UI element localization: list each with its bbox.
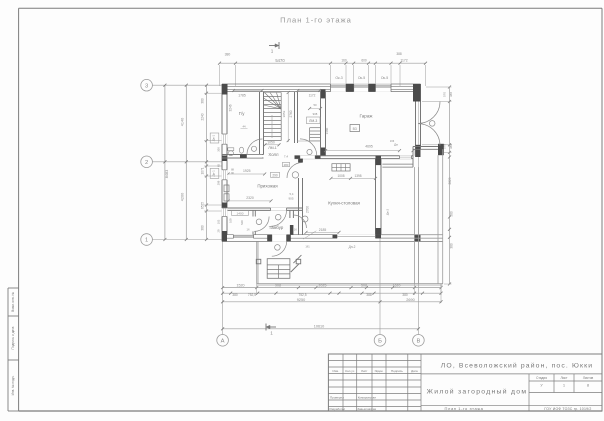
svg-text:Кол.уч: Кол.уч — [345, 369, 354, 373]
svg-text:300: 300 — [216, 147, 220, 152]
svg-text:4140: 4140 — [180, 118, 184, 126]
svg-text:Лист: Лист — [361, 369, 368, 373]
svg-text:Дата: Дата — [411, 369, 418, 373]
svg-text:2240: 2240 — [200, 113, 204, 120]
svg-text:4200: 4200 — [180, 193, 184, 201]
svg-text:10610: 10610 — [314, 324, 325, 328]
svg-text:7,4: 7,4 — [284, 155, 289, 159]
svg-text:1б6: 1б6 — [390, 139, 395, 143]
svg-text:1б1: 1б1 — [305, 245, 310, 249]
svg-text:ЛМ-3: ЛМ-3 — [309, 119, 317, 123]
svg-text:1172: 1172 — [400, 59, 407, 63]
svg-text:Взам. инв. №: Взам. инв. № — [11, 292, 15, 312]
svg-text:Холл: Холл — [268, 152, 279, 157]
svg-text:29: 29 — [216, 229, 220, 232]
svg-text:299: 299 — [216, 180, 220, 185]
svg-text:Дв-1: Дв-1 — [212, 135, 216, 142]
svg-text:Гараж: Гараж — [360, 114, 374, 119]
svg-text:2320: 2320 — [246, 196, 254, 200]
svg-text:65: 65 — [216, 164, 220, 167]
svg-text:528: 528 — [240, 220, 244, 225]
svg-text:388: 388 — [449, 92, 453, 97]
svg-text:1050: 1050 — [267, 140, 275, 144]
svg-text:ГОУ ИОФ ТОЗС гр. 1019/2: ГОУ ИОФ ТОЗС гр. 1019/2 — [544, 407, 591, 411]
svg-text:1785: 1785 — [238, 94, 246, 98]
svg-text:8: 8 — [587, 384, 589, 388]
svg-text:280: 280 — [284, 163, 289, 167]
svg-text:Проверил: Проверил — [330, 395, 344, 399]
svg-text:1008: 1008 — [337, 174, 344, 178]
svg-text:Кухня-столовая: Кухня-столовая — [328, 200, 360, 205]
svg-text:2185: 2185 — [319, 228, 327, 232]
svg-text:9250: 9250 — [297, 298, 305, 302]
svg-text:2: 2 — [145, 160, 148, 166]
svg-text:Изм.: Изм. — [332, 369, 339, 373]
svg-text:ЛО, Всеволожский район, пос. Ю: ЛО, Всеволожский район, пос. Юкки — [441, 362, 593, 370]
svg-text:Ок-5: Ок-5 — [381, 76, 388, 80]
svg-text:5,4: 5,4 — [290, 192, 294, 196]
svg-text:1400: 1400 — [237, 211, 244, 215]
svg-text:1925: 1925 — [243, 169, 251, 173]
svg-text:380: 380 — [402, 293, 408, 297]
svg-text:Листов: Листов — [583, 376, 594, 380]
svg-text:Дв-1: Дв-1 — [212, 170, 216, 177]
svg-text:1520: 1520 — [237, 283, 245, 287]
svg-text:388: 388 — [366, 293, 372, 297]
svg-text:380: 380 — [232, 293, 238, 297]
svg-text:388: 388 — [396, 52, 402, 56]
svg-text:Прихожая: Прихожая — [257, 184, 278, 189]
svg-text:Стадия: Стадия — [536, 376, 547, 380]
svg-text:1071: 1071 — [200, 167, 204, 174]
svg-text:План 1-го этажа: План 1-го этажа — [280, 15, 352, 24]
svg-text:908: 908 — [313, 112, 318, 116]
svg-text:Дв-2: Дв-2 — [386, 209, 390, 216]
svg-text:160: 160 — [341, 59, 347, 63]
svg-text:Подпись и дата: Подпись и дата — [11, 326, 15, 349]
svg-text:905: 905 — [288, 197, 293, 201]
svg-text:752,5: 752,5 — [248, 293, 256, 297]
svg-text:5470: 5470 — [275, 58, 285, 63]
svg-text:Жилой загородный дом: Жилой загородный дом — [427, 387, 528, 395]
svg-text:Разработал: Разработал — [330, 407, 346, 411]
svg-text:4695: 4695 — [365, 145, 373, 149]
svg-text:380: 380 — [225, 53, 231, 57]
svg-text:380: 380 — [200, 225, 204, 231]
svg-text:Дн-2: Дн-2 — [349, 245, 356, 249]
svg-text:752,5: 752,5 — [298, 293, 306, 297]
svg-text:44: 44 — [242, 125, 246, 129]
svg-text:2760: 2760 — [289, 110, 293, 117]
svg-text:2690: 2690 — [406, 298, 414, 302]
svg-text:380: 380 — [200, 98, 204, 104]
svg-text:388: 388 — [449, 144, 453, 149]
svg-text:Завьяловская: Завьяловская — [357, 407, 376, 411]
svg-text:Инв. № подл.: Инв. № подл. — [11, 375, 15, 395]
svg-text:600: 600 — [361, 59, 367, 63]
svg-text:1680: 1680 — [325, 127, 329, 134]
svg-text:570: 570 — [443, 92, 447, 97]
svg-text:1172: 1172 — [309, 93, 316, 97]
svg-text:2700: 2700 — [306, 206, 310, 213]
svg-text:Ок-3: Ок-3 — [335, 76, 342, 80]
svg-text:290: 290 — [272, 173, 278, 177]
svg-text:Г/у: Г/у — [239, 111, 246, 116]
svg-text:6525: 6525 — [200, 202, 204, 209]
svg-text:Комаровская: Комаровская — [358, 395, 377, 399]
svg-text:А: А — [221, 338, 225, 344]
svg-text:8483: 8483 — [165, 170, 169, 178]
svg-text:Б: Б — [378, 338, 382, 344]
svg-text:Дв: Дв — [394, 143, 398, 147]
svg-text:1: 1 — [145, 238, 148, 244]
svg-text:380: 380 — [449, 243, 453, 249]
svg-text:ЛМ-1: ЛМ-1 — [268, 146, 277, 150]
svg-text:Подпись: Подпись — [391, 369, 403, 373]
svg-text:109: 109 — [229, 218, 233, 223]
svg-text:1б: 1б — [294, 228, 297, 232]
svg-text:1398: 1398 — [354, 174, 361, 178]
svg-text:3053: 3053 — [282, 110, 286, 117]
svg-text:1б: 1б — [247, 228, 250, 232]
svg-text:План 1-го этажа: План 1-го этажа — [445, 406, 484, 411]
svg-text:Тамбур: Тамбур — [269, 225, 284, 230]
svg-text:580: 580 — [449, 211, 453, 217]
svg-text:В: В — [416, 338, 420, 344]
svg-text:3: 3 — [145, 83, 148, 89]
svg-text:В3: В3 — [353, 127, 357, 131]
svg-text:50: 50 — [313, 103, 317, 107]
svg-text:Ок-5: Ок-5 — [358, 76, 365, 80]
svg-text:2829: 2829 — [448, 177, 452, 184]
svg-text:1: 1 — [563, 384, 565, 388]
svg-text:№док.: №док. — [375, 369, 384, 373]
svg-text:103: 103 — [216, 219, 220, 224]
svg-text:3246: 3246 — [229, 104, 233, 111]
svg-text:Лист: Лист — [561, 376, 568, 380]
